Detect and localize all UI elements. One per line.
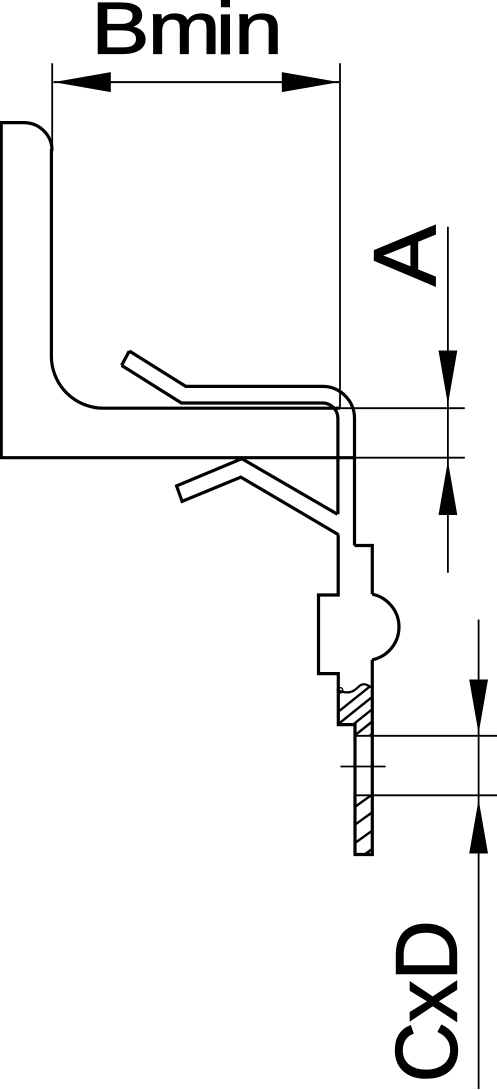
clip top tongue inner edge and bend xyxy=(122,365,338,514)
arrowhead CxD down xyxy=(469,680,488,734)
dimension line Bmin xyxy=(54,81,340,83)
break line start loop xyxy=(337,688,342,693)
arrowhead Bmin left xyxy=(54,72,111,92)
stud right edge xyxy=(371,660,374,855)
panel outer contour xyxy=(1,123,356,458)
arrowhead Bmin right xyxy=(282,72,339,92)
clip top tongue outer edge and bend xyxy=(129,351,354,546)
clip lower body right contour step xyxy=(355,546,373,595)
panel inner contour xyxy=(51,149,340,408)
dimension line A xyxy=(447,227,449,573)
extension line CxD top xyxy=(355,735,497,737)
svg-text:Bmin: Bmin xyxy=(91,0,282,70)
extension line CxD bottom xyxy=(355,794,497,796)
centre mark on stud shank xyxy=(341,766,386,768)
ball bulge xyxy=(372,594,399,660)
dimension line CxD xyxy=(478,620,480,1090)
stud bottom corner loop xyxy=(369,851,373,855)
clip top tongue end cap xyxy=(122,351,130,365)
extension line A bottom xyxy=(356,457,465,459)
arrowhead A down xyxy=(439,351,458,405)
extension line A top xyxy=(330,407,465,409)
break line wavy xyxy=(339,684,373,692)
svg-text:CxD: CxD xyxy=(379,920,476,1082)
arrowhead CxD up xyxy=(469,800,488,854)
arrowhead A up xyxy=(439,461,458,515)
extension line Bmin left xyxy=(51,63,53,152)
extension line Bmin right xyxy=(339,63,341,408)
stud bottom cap xyxy=(354,853,374,856)
svg-text:A: A xyxy=(356,225,454,286)
clip barb tongue xyxy=(177,459,339,535)
clip lower body left contour xyxy=(319,535,356,855)
